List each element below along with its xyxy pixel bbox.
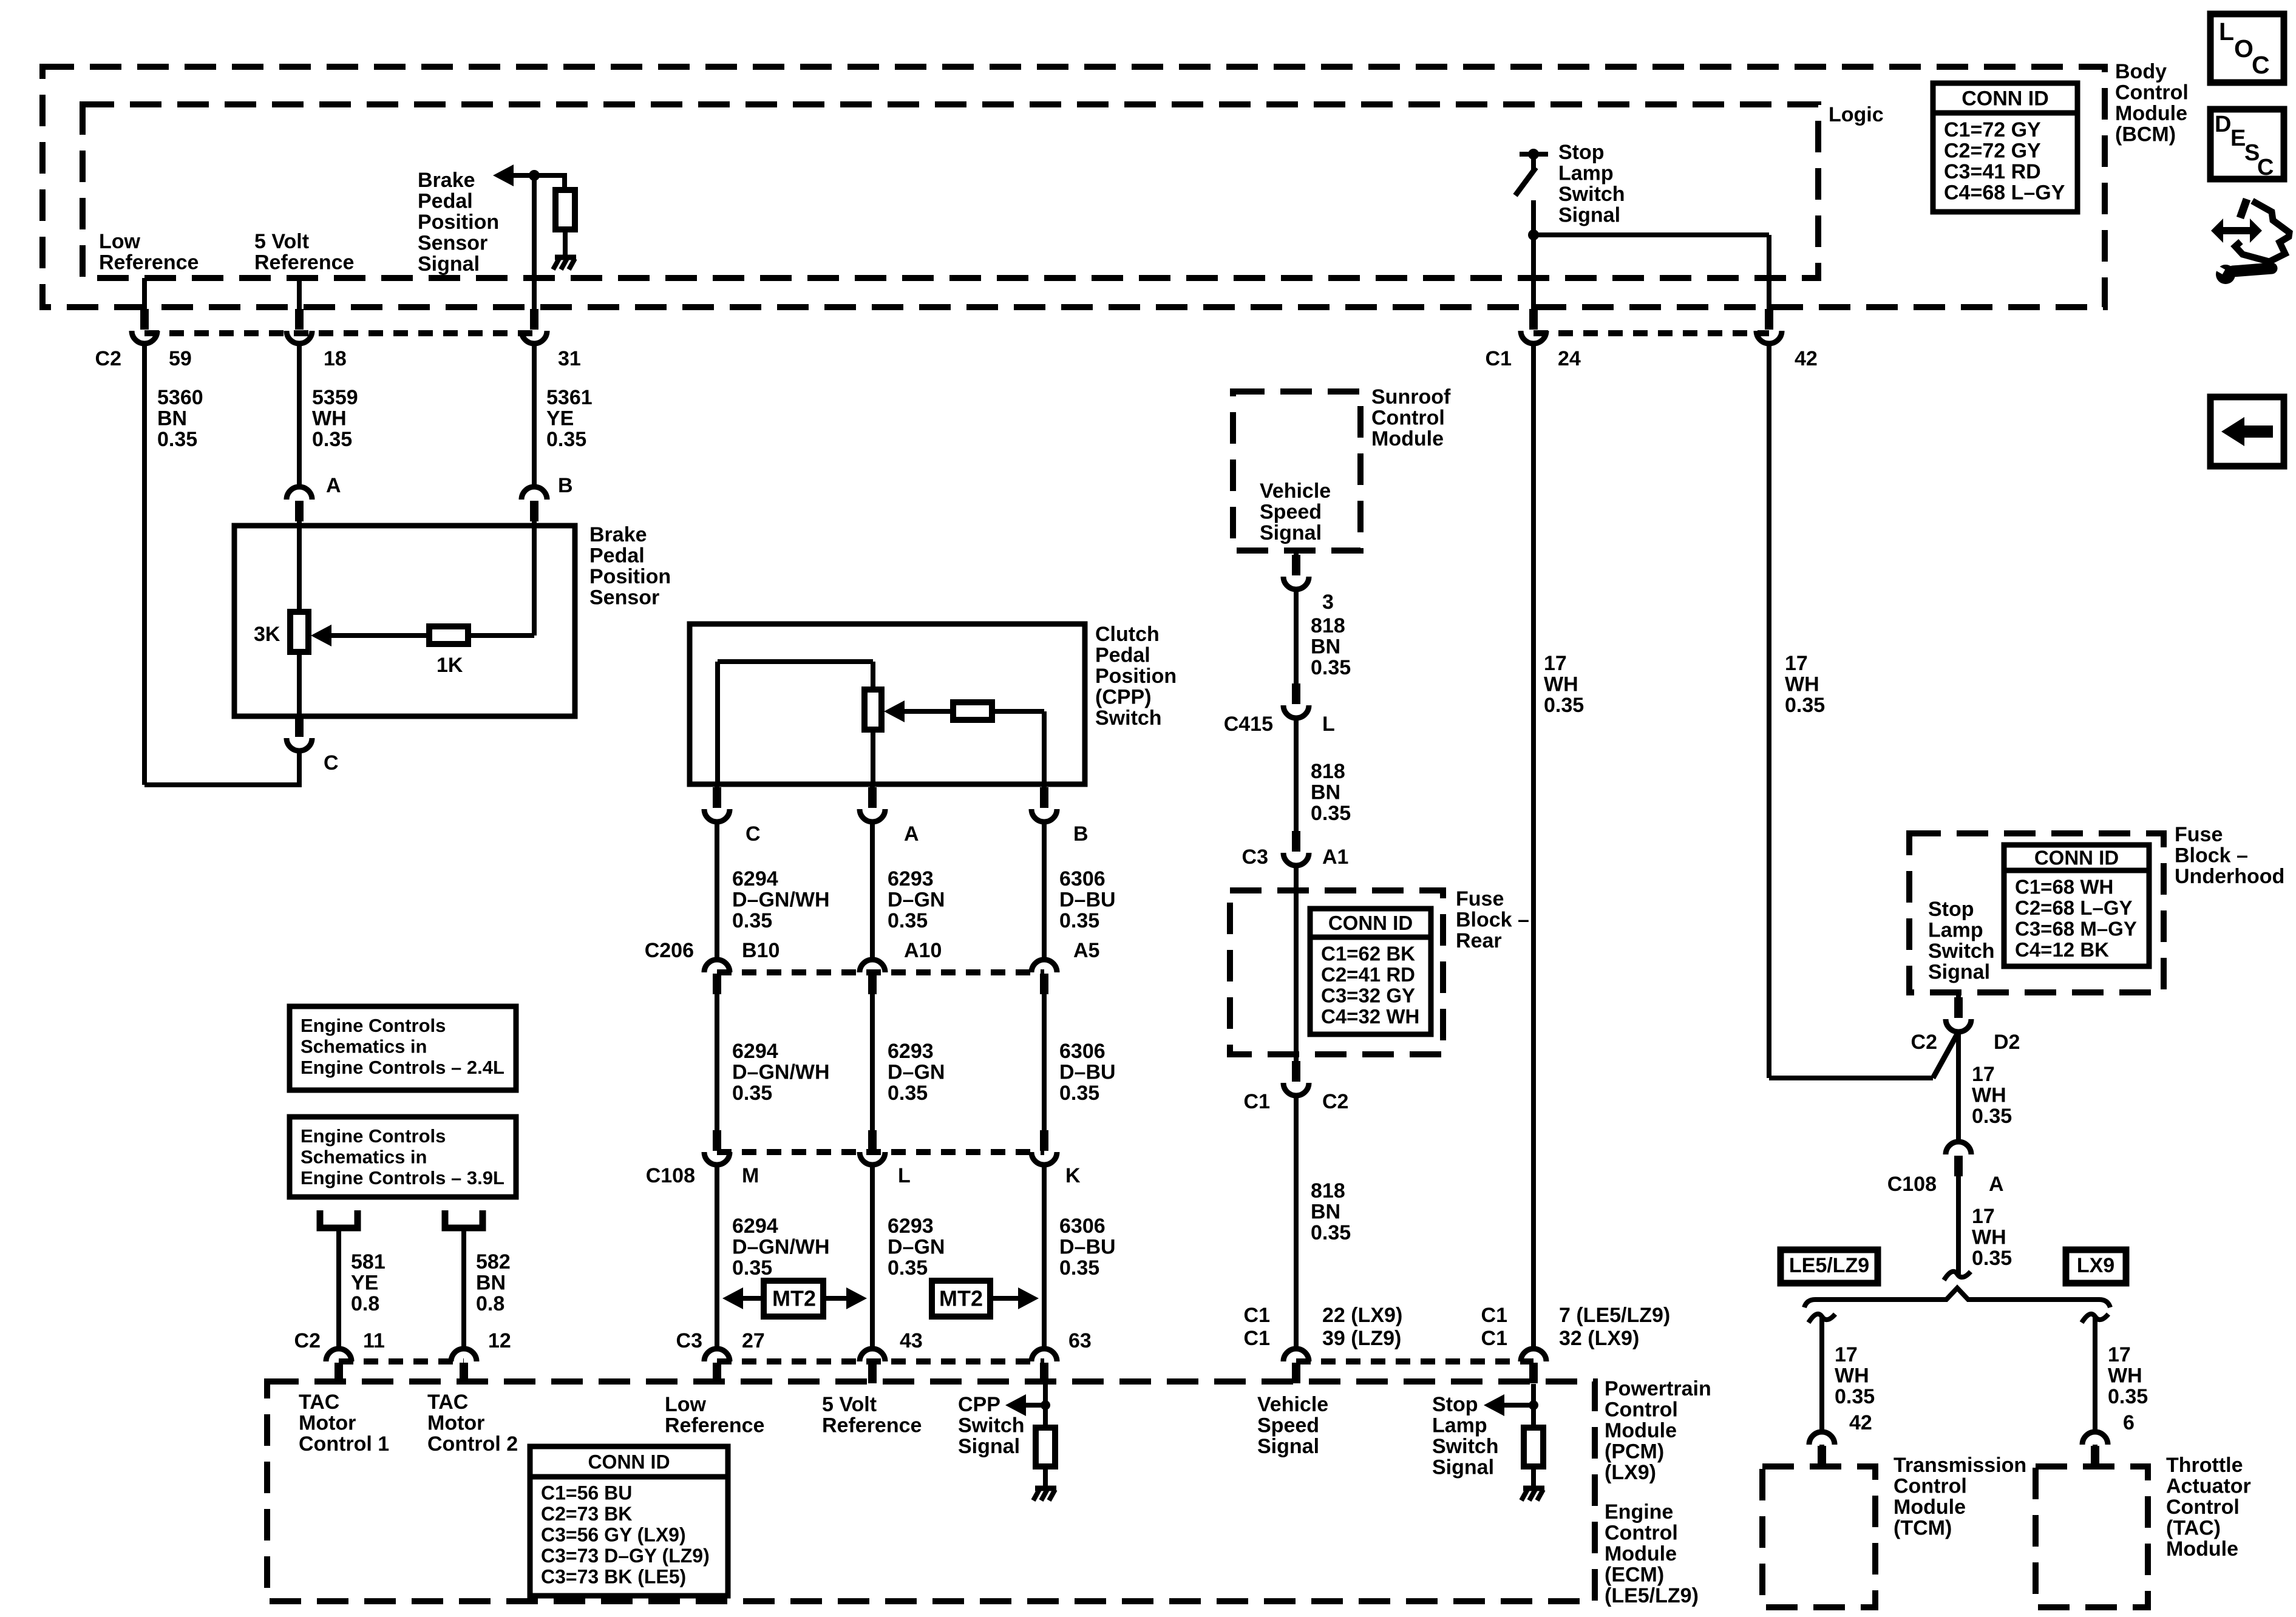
svg-text:581: 581 (351, 1250, 385, 1273)
svg-text:Rear: Rear (1456, 929, 1502, 952)
svg-text:Stop: Stop (1558, 141, 1605, 164)
svg-text:0.35: 0.35 (546, 428, 586, 451)
svg-text:59: 59 (169, 347, 192, 370)
svg-text:(BCM): (BCM) (2115, 123, 2176, 146)
svg-text:6293: 6293 (888, 1215, 934, 1238)
svg-text:C2=68 L–GY: C2=68 L–GY (2015, 897, 2133, 919)
svg-text:Schematics in: Schematics in (301, 1146, 427, 1167)
svg-text:Signal: Signal (1432, 1456, 1494, 1479)
svg-text:5361: 5361 (546, 386, 593, 409)
svg-text:(TAC): (TAC) (2166, 1517, 2221, 1540)
svg-text:Engine Controls: Engine Controls (301, 1015, 446, 1036)
svg-text:C1=62 BK: C1=62 BK (1321, 942, 1415, 964)
svg-text:TAC: TAC (299, 1391, 339, 1414)
svg-text:0.35: 0.35 (1544, 694, 1584, 717)
svg-text:17: 17 (1972, 1063, 1995, 1086)
svg-text:0.35: 0.35 (888, 909, 928, 932)
svg-text:LE5/LZ9: LE5/LZ9 (1789, 1254, 1869, 1277)
svg-text:Pedal: Pedal (589, 544, 645, 568)
svg-text:E: E (2230, 126, 2246, 151)
svg-text:Stop: Stop (1928, 898, 1974, 921)
svg-text:K: K (1065, 1164, 1081, 1187)
svg-text:Position: Position (418, 211, 499, 234)
svg-text:C1: C1 (1244, 1327, 1270, 1350)
svg-text:C206: C206 (645, 939, 694, 962)
svg-text:0.35: 0.35 (732, 909, 772, 932)
svg-text:Module: Module (1605, 1542, 1677, 1565)
svg-text:Stop: Stop (1432, 1393, 1478, 1416)
svg-text:A1: A1 (1322, 846, 1348, 869)
svg-text:C3: C3 (676, 1329, 702, 1352)
svg-text:A: A (326, 474, 341, 497)
svg-text:17: 17 (1972, 1205, 1995, 1228)
svg-text:Lamp: Lamp (1432, 1414, 1487, 1437)
svg-text:1K: 1K (436, 654, 463, 677)
svg-text:Switch: Switch (1432, 1435, 1499, 1458)
svg-text:18: 18 (324, 347, 347, 370)
svg-text:M: M (742, 1164, 759, 1187)
svg-text:LX9: LX9 (2077, 1254, 2114, 1277)
svg-text:Module: Module (1605, 1419, 1677, 1442)
svg-text:C3=32 GY: C3=32 GY (1321, 984, 1415, 1006)
svg-text:B: B (558, 474, 573, 497)
svg-text:C: C (324, 751, 339, 775)
svg-text:C2: C2 (95, 347, 121, 370)
svg-text:C1: C1 (1486, 347, 1512, 370)
svg-text:(LX9): (LX9) (1605, 1461, 1656, 1484)
svg-text:6306: 6306 (1059, 867, 1106, 890)
svg-text:Vehicle: Vehicle (1257, 1393, 1328, 1416)
svg-text:(CPP): (CPP) (1095, 686, 1152, 709)
svg-text:WH: WH (2108, 1364, 2142, 1388)
svg-text:0.35: 0.35 (732, 1256, 772, 1280)
svg-text:43: 43 (900, 1329, 923, 1352)
svg-text:39 (LZ9): 39 (LZ9) (1322, 1327, 1401, 1350)
svg-text:Signal: Signal (958, 1435, 1020, 1458)
svg-text:17: 17 (2108, 1343, 2131, 1366)
svg-text:A: A (1989, 1173, 2004, 1196)
svg-text:Engine: Engine (1605, 1500, 1673, 1524)
svg-text:C108: C108 (646, 1164, 695, 1187)
svg-text:Switch: Switch (958, 1414, 1025, 1437)
svg-text:Reference: Reference (665, 1414, 764, 1437)
svg-text:Clutch: Clutch (1095, 623, 1160, 646)
svg-text:Control: Control (2115, 81, 2189, 104)
svg-text:Pedal: Pedal (418, 190, 473, 213)
svg-text:22 (LX9): 22 (LX9) (1322, 1304, 1402, 1327)
svg-text:Speed: Speed (1260, 501, 1322, 524)
svg-text:0.35: 0.35 (1311, 1221, 1351, 1244)
svg-text:818: 818 (1311, 614, 1345, 637)
svg-text:A: A (904, 822, 919, 846)
svg-text:0.35: 0.35 (312, 428, 352, 451)
svg-text:Switch: Switch (1928, 940, 1995, 963)
svg-text:C108: C108 (1887, 1173, 1937, 1196)
svg-text:C1: C1 (1244, 1090, 1270, 1113)
svg-text:Signal: Signal (1558, 204, 1620, 227)
svg-text:YE: YE (546, 407, 574, 430)
svg-text:C1: C1 (1244, 1304, 1270, 1327)
svg-text:11: 11 (363, 1329, 385, 1352)
svg-text:Low: Low (665, 1393, 707, 1416)
svg-text:Switch: Switch (1558, 183, 1625, 206)
svg-text:Module: Module (2115, 102, 2187, 125)
svg-text:Block –: Block – (2175, 844, 2248, 867)
svg-text:C4=68 L–GY: C4=68 L–GY (1944, 181, 2065, 205)
svg-text:CONN ID: CONN ID (1961, 87, 2049, 110)
svg-text:Fuse: Fuse (2175, 823, 2223, 846)
svg-text:Motor: Motor (427, 1412, 484, 1435)
svg-text:C3: C3 (1242, 846, 1268, 869)
svg-text:BN: BN (1311, 781, 1340, 804)
svg-text:0.35: 0.35 (1059, 909, 1099, 932)
svg-text:31: 31 (558, 347, 581, 370)
svg-text:7 (LE5/LZ9): 7 (LE5/LZ9) (1559, 1304, 1670, 1327)
svg-text:6293: 6293 (888, 867, 934, 890)
svg-text:Module: Module (1894, 1496, 1966, 1519)
svg-text:5 Volt: 5 Volt (822, 1393, 877, 1416)
svg-text:B: B (1073, 822, 1089, 846)
svg-text:Signal: Signal (1257, 1435, 1319, 1458)
svg-text:27: 27 (742, 1329, 765, 1352)
svg-text:D–GN: D–GN (888, 1061, 945, 1084)
svg-text:Reference: Reference (254, 251, 354, 274)
svg-text:0.35: 0.35 (157, 428, 197, 451)
svg-text:Schematics in: Schematics in (301, 1036, 427, 1057)
svg-text:6294: 6294 (732, 1040, 778, 1063)
svg-text:42: 42 (1849, 1411, 1872, 1434)
svg-text:Position: Position (1095, 665, 1177, 688)
svg-text:Position: Position (589, 565, 671, 588)
svg-text:C2=72 GY: C2=72 GY (1944, 140, 2041, 163)
svg-text:D–GN: D–GN (888, 1236, 945, 1259)
svg-text:WH: WH (1835, 1364, 1869, 1388)
svg-text:Engine Controls – 3.9L: Engine Controls – 3.9L (301, 1167, 504, 1188)
svg-text:Vehicle: Vehicle (1260, 480, 1331, 503)
svg-text:3: 3 (1322, 591, 1334, 614)
svg-text:D–GN: D–GN (888, 889, 945, 912)
svg-text:6: 6 (2123, 1411, 2135, 1434)
svg-text:Engine Controls – 2.4L: Engine Controls – 2.4L (301, 1057, 504, 1078)
svg-text:WH: WH (312, 407, 347, 430)
svg-text:C2: C2 (294, 1329, 321, 1352)
svg-text:Brake: Brake (589, 523, 647, 546)
svg-text:6293: 6293 (888, 1040, 934, 1063)
svg-text:Signal: Signal (418, 253, 480, 276)
svg-text:3K: 3K (254, 623, 280, 646)
svg-text:Module: Module (2166, 1537, 2238, 1561)
svg-text:A10: A10 (904, 939, 942, 962)
svg-text:0.35: 0.35 (1059, 1256, 1099, 1280)
svg-text:6294: 6294 (732, 867, 778, 890)
svg-text:(TCM): (TCM) (1894, 1517, 1952, 1540)
svg-text:0.35: 0.35 (1311, 802, 1351, 825)
svg-text:C: C (746, 822, 761, 846)
svg-text:L: L (898, 1164, 911, 1187)
svg-text:(ECM): (ECM) (1605, 1564, 1664, 1587)
svg-text:C2: C2 (1322, 1090, 1348, 1113)
svg-text:Control: Control (1605, 1522, 1678, 1545)
svg-text:0.35: 0.35 (1835, 1385, 1875, 1408)
svg-text:C4=12 BK: C4=12 BK (2015, 938, 2109, 961)
svg-text:0.35: 0.35 (888, 1082, 928, 1105)
svg-text:0.35: 0.35 (1311, 656, 1351, 679)
svg-text:42: 42 (1795, 347, 1818, 370)
svg-text:D–GN/WH: D–GN/WH (732, 889, 830, 912)
svg-text:0.35: 0.35 (732, 1082, 772, 1105)
svg-text:D–GN/WH: D–GN/WH (732, 1236, 830, 1259)
svg-text:TAC: TAC (427, 1391, 468, 1414)
svg-text:YE: YE (351, 1272, 378, 1295)
svg-text:C2=73 BK: C2=73 BK (541, 1503, 632, 1525)
svg-text:Control 2: Control 2 (427, 1432, 518, 1456)
svg-text:63: 63 (1068, 1329, 1092, 1352)
svg-text:D2: D2 (1994, 1031, 2020, 1054)
svg-text:Underhood: Underhood (2175, 865, 2284, 888)
svg-text:C3=56 GY (LX9): C3=56 GY (LX9) (541, 1524, 686, 1546)
svg-text:6306: 6306 (1059, 1040, 1106, 1063)
svg-text:5360: 5360 (157, 386, 203, 409)
svg-text:32 (LX9): 32 (LX9) (1559, 1327, 1639, 1350)
svg-text:BN: BN (1311, 1201, 1340, 1224)
svg-text:0.8: 0.8 (351, 1292, 379, 1315)
svg-text:Signal: Signal (1928, 961, 1990, 984)
svg-text:C: C (2257, 155, 2274, 180)
svg-text:Speed: Speed (1257, 1414, 1319, 1437)
svg-text:0.35: 0.35 (1972, 1247, 2012, 1270)
svg-text:C3=73 BK (LE5): C3=73 BK (LE5) (541, 1566, 686, 1588)
svg-text:C1=72 GY: C1=72 GY (1944, 118, 2041, 141)
svg-text:B10: B10 (742, 939, 779, 962)
svg-text:Switch: Switch (1095, 707, 1162, 730)
svg-text:0.8: 0.8 (476, 1292, 504, 1315)
svg-text:Control: Control (2166, 1496, 2240, 1519)
svg-text:D–GN/WH: D–GN/WH (732, 1061, 830, 1084)
svg-text:Pedal: Pedal (1095, 644, 1150, 667)
svg-text:C3=41 RD: C3=41 RD (1944, 160, 2041, 183)
svg-text:Logic: Logic (1829, 103, 1884, 126)
svg-text:L: L (2219, 18, 2234, 46)
svg-text:WH: WH (1785, 673, 1819, 696)
svg-text:C3=73 D–GY (LZ9): C3=73 D–GY (LZ9) (541, 1545, 710, 1567)
svg-text:L: L (1322, 713, 1335, 736)
svg-text:C1: C1 (1481, 1304, 1507, 1327)
svg-text:C: C (2252, 51, 2270, 79)
svg-text:Low: Low (99, 230, 141, 253)
svg-text:24: 24 (1558, 347, 1581, 370)
svg-text:12: 12 (488, 1329, 511, 1352)
svg-text:5359: 5359 (312, 386, 358, 409)
svg-text:5 Volt: 5 Volt (254, 230, 309, 253)
svg-text:Control: Control (1894, 1475, 1967, 1498)
svg-text:MT2: MT2 (772, 1286, 816, 1311)
svg-text:WH: WH (1972, 1084, 2006, 1107)
svg-text:C1: C1 (1481, 1327, 1507, 1350)
svg-text:Control: Control (1605, 1398, 1678, 1422)
svg-text:BN: BN (1311, 636, 1340, 659)
svg-text:BN: BN (157, 407, 187, 430)
svg-text:Control 1: Control 1 (299, 1432, 389, 1456)
svg-text:Signal: Signal (1260, 521, 1322, 544)
svg-text:17: 17 (1544, 652, 1567, 675)
svg-text:C2=41 RD: C2=41 RD (1321, 963, 1415, 986)
svg-text:CONN ID: CONN ID (1328, 912, 1413, 934)
svg-text:Reference: Reference (99, 251, 199, 274)
svg-text:Sunroof: Sunroof (1371, 385, 1451, 408)
svg-text:Fuse: Fuse (1456, 887, 1504, 910)
svg-text:BN: BN (476, 1272, 506, 1295)
svg-text:0.35: 0.35 (888, 1256, 928, 1280)
svg-text:Body: Body (2115, 60, 2167, 83)
svg-text:C3=68 M–GY: C3=68 M–GY (2015, 917, 2137, 940)
svg-text:C1=68 WH: C1=68 WH (2015, 875, 2113, 898)
svg-text:(PCM): (PCM) (1605, 1440, 1664, 1463)
svg-text:CPP: CPP (958, 1393, 1000, 1416)
svg-text:582: 582 (476, 1250, 511, 1273)
svg-text:D–BU: D–BU (1059, 1061, 1116, 1084)
svg-text:CONN ID: CONN ID (2034, 847, 2119, 869)
svg-text:(LE5/LZ9): (LE5/LZ9) (1605, 1584, 1699, 1607)
svg-text:0.35: 0.35 (1059, 1082, 1099, 1105)
svg-text:6294: 6294 (732, 1215, 778, 1238)
svg-text:0.35: 0.35 (1785, 694, 1825, 717)
svg-text:MT2: MT2 (939, 1286, 983, 1311)
svg-text:Module: Module (1371, 427, 1444, 450)
svg-text:CONN ID: CONN ID (588, 1451, 670, 1473)
svg-text:A5: A5 (1073, 939, 1099, 962)
svg-text:Sensor: Sensor (418, 232, 487, 255)
svg-text:Block –: Block – (1456, 909, 1529, 932)
svg-text:Transmission: Transmission (1894, 1454, 2026, 1477)
svg-text:Powertrain: Powertrain (1605, 1377, 1711, 1400)
svg-text:Sensor: Sensor (589, 586, 659, 609)
svg-text:C2: C2 (1911, 1031, 1937, 1054)
svg-text:D: D (2215, 112, 2231, 137)
svg-text:Lamp: Lamp (1558, 162, 1614, 185)
svg-text:Brake: Brake (418, 169, 475, 192)
svg-text:D–BU: D–BU (1059, 1236, 1116, 1259)
svg-text:O: O (2234, 35, 2254, 63)
svg-text:Actuator: Actuator (2166, 1475, 2251, 1498)
svg-text:Reference: Reference (822, 1414, 922, 1437)
svg-text:Motor: Motor (299, 1412, 356, 1435)
svg-text:D–BU: D–BU (1059, 889, 1116, 912)
svg-text:Control: Control (1371, 407, 1445, 430)
svg-text:6306: 6306 (1059, 1215, 1106, 1238)
svg-text:C415: C415 (1224, 713, 1273, 736)
svg-text:0.35: 0.35 (2108, 1385, 2148, 1408)
svg-text:818: 818 (1311, 1179, 1345, 1202)
svg-text:C4=32 WH: C4=32 WH (1321, 1005, 1419, 1028)
svg-text:818: 818 (1311, 760, 1345, 783)
svg-text:Throttle: Throttle (2166, 1454, 2243, 1477)
svg-text:WH: WH (1972, 1226, 2006, 1249)
svg-text:17: 17 (1835, 1343, 1858, 1366)
svg-text:WH: WH (1544, 673, 1578, 696)
svg-text:Lamp: Lamp (1928, 919, 1983, 942)
svg-text:C1=56 BU: C1=56 BU (541, 1482, 632, 1504)
svg-text:17: 17 (1785, 652, 1808, 675)
svg-text:Engine Controls: Engine Controls (301, 1125, 446, 1147)
svg-text:0.35: 0.35 (1972, 1105, 2012, 1128)
